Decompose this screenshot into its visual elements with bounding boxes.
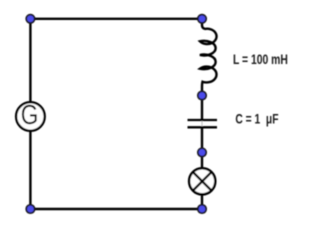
node mid-right C-lamp bbox=[198, 148, 206, 156]
node bottom-right bbox=[198, 205, 206, 213]
wire capacitor gap faint bbox=[201, 120, 203, 127]
wire bottom bbox=[30, 208, 202, 210]
node bottom-left bbox=[26, 205, 34, 213]
generator G circle bbox=[16, 102, 45, 131]
svg-text:C = 1 μF: C = 1 μF bbox=[235, 111, 278, 126]
wire right lower lead bbox=[201, 128, 203, 209]
wire top bbox=[30, 18, 202, 20]
inductor L1 coil bbox=[200, 19, 217, 96]
svg-text:L = 100 mH: L = 100 mH bbox=[233, 52, 288, 67]
lamp X stroke 2 bbox=[193, 172, 212, 191]
wire left bbox=[29, 19, 31, 209]
node top-right bbox=[198, 15, 206, 23]
capacitor C1 top plate bbox=[188, 119, 218, 121]
capacitor C1 bottom plate bbox=[188, 126, 218, 128]
lamp circle bbox=[189, 168, 215, 194]
svg-text:G: G bbox=[21, 99, 39, 130]
node top-left bbox=[26, 15, 34, 23]
lamp X stroke 1 bbox=[193, 172, 212, 191]
wire right upper lead bbox=[201, 96, 203, 120]
node mid-right L-C bbox=[198, 91, 206, 99]
